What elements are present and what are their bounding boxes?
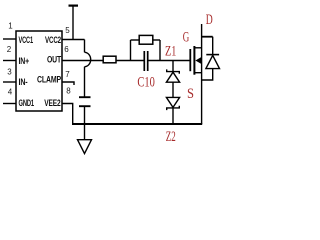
op-amp U1 body: [16, 31, 62, 111]
wire VCC2 supply drop: [72, 7, 74, 40]
wire loop top left segment: [131, 39, 140, 41]
svg-text:IN+: IN+: [19, 56, 30, 66]
svg-text:CLAMP: CLAMP: [37, 75, 61, 85]
wire net VCC2 vertical upper: [84, 40, 86, 53]
transistor Q1 source stub: [194, 72, 201, 74]
transistor Q1 gate bar: [189, 49, 191, 71]
svg-text:OUT: OUT: [47, 55, 62, 65]
svg-text:3: 3: [7, 68, 12, 77]
wire pin1 stub: [3, 38, 16, 40]
svg-text:7: 7: [65, 70, 70, 79]
capacitor C10 left plate: [143, 51, 145, 71]
wire ground stem: [84, 124, 86, 140]
zener Z1 triangle: [166, 72, 179, 82]
svg-text:Z2: Z2: [166, 129, 176, 145]
wire net VCC2 vertical lower: [84, 67, 86, 97]
svg-text:C10: C10: [137, 75, 154, 91]
svg-text:Z1: Z1: [165, 44, 176, 60]
svg-text:VCC2: VCC2: [45, 35, 61, 45]
svg-text:2: 2: [7, 45, 12, 54]
wire parallel loop right leg: [159, 40, 161, 61]
wire cap to rail: [84, 107, 86, 124]
wire zener to rail: [172, 108, 174, 124]
diode body triangle: [206, 55, 220, 68]
svg-text:6: 6: [64, 45, 69, 54]
power terminal VCC2 bar: [69, 5, 79, 7]
svg-text:5: 5: [65, 26, 70, 35]
wire bottom rail: [72, 123, 202, 125]
diode body cathode bar: [206, 54, 219, 56]
capacitor C10 right plate: [147, 51, 149, 71]
capacitor bypass bottom plate: [79, 105, 91, 107]
svg-text:G: G: [183, 30, 190, 46]
wire zener branch top: [172, 61, 174, 72]
svg-text:8: 8: [66, 87, 71, 96]
wire parallel loop left leg: [130, 40, 132, 61]
wire pin8 VEE2 stub: [62, 104, 73, 125]
diode body cathode lead: [212, 37, 214, 55]
svg-text:GND1: GND1: [19, 98, 35, 108]
resistor series R?: [103, 56, 116, 63]
wire pin4 stub: [3, 103, 16, 105]
wire pin5 VCC2 stub: [62, 39, 85, 41]
wire drain-source vertical: [201, 24, 203, 124]
wire pin2 stub: [3, 60, 16, 62]
transistor Q1 drain stub: [194, 47, 201, 49]
wire zener middle: [172, 82, 174, 97]
wire hop over OUT: [85, 52, 91, 66]
ground: [78, 140, 92, 154]
zener Z1 cathode bar: [167, 69, 180, 73]
svg-text:IN-: IN-: [19, 77, 28, 87]
svg-text:VCC1: VCC1: [19, 35, 34, 45]
zener Z2 triangle: [166, 97, 179, 107]
wire pin6 OUT stub: [62, 60, 103, 62]
svg-text:D: D: [206, 12, 213, 28]
svg-text:4: 4: [8, 88, 13, 97]
wire drain bar to diode: [202, 36, 213, 38]
transistor Q1 body arrow: [195, 57, 201, 64]
wire pin3 stub: [3, 81, 16, 83]
transistor Q1 channel bar: [193, 46, 195, 75]
diode body anode lead: [202, 69, 213, 80]
svg-text:S: S: [187, 86, 194, 102]
zener Z2 cathode bar: [167, 106, 180, 110]
wire cap to gate: [149, 60, 191, 62]
wire resistor to cap: [116, 60, 144, 62]
wire pin7 CLAMP stub: [62, 82, 74, 85]
capacitor bypass top plate: [79, 96, 91, 98]
resistor parallel R?: [139, 35, 153, 44]
wire loop top right segment: [153, 39, 160, 41]
svg-text:VEE2: VEE2: [44, 98, 61, 108]
svg-text:1: 1: [8, 22, 13, 31]
